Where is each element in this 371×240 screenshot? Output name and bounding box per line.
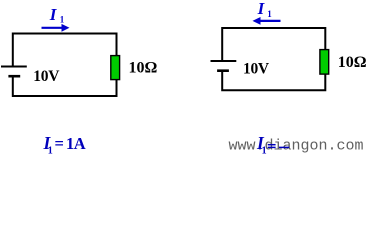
svg-text:1: 1: [60, 15, 65, 25]
battery B2 short plate (negative): [217, 69, 229, 72]
battery B1 short plate (negative): [8, 75, 20, 78]
current arrow I1 (pointing right): [42, 24, 70, 32]
svg-text:10Ω: 10Ω: [129, 60, 158, 77]
battery B1 long plate (positive): [1, 65, 27, 67]
svg-text:I: I: [49, 5, 58, 24]
formula I1 = - (partially covered by watermark): [256, 133, 289, 157]
svg-text:10V: 10V: [33, 68, 60, 85]
svg-text:1: 1: [267, 9, 272, 19]
svg-text:1A: 1A: [66, 134, 86, 153]
svg-text:www.diangon.com: www.diangon.com: [229, 138, 364, 155]
svg-text:=: =: [55, 134, 64, 153]
svg-text:1: 1: [262, 146, 267, 157]
resistor R2: [320, 50, 329, 75]
current label I1 (right circuit): [257, 0, 273, 19]
current label I1 (left circuit): [49, 5, 65, 25]
resistor R1: [111, 56, 120, 80]
formula I1 = 1A: [43, 133, 86, 157]
svg-text:10V: 10V: [243, 61, 270, 78]
svg-text:10Ω: 10Ω: [338, 54, 367, 71]
svg-text:1: 1: [48, 146, 53, 157]
svg-text:I: I: [257, 0, 266, 18]
current arrow I1 (pointing left): [253, 17, 281, 25]
wire loop left circuit: [13, 34, 117, 97]
wire loop right circuit: [222, 28, 325, 90]
battery B2 long plate (positive): [211, 60, 237, 62]
